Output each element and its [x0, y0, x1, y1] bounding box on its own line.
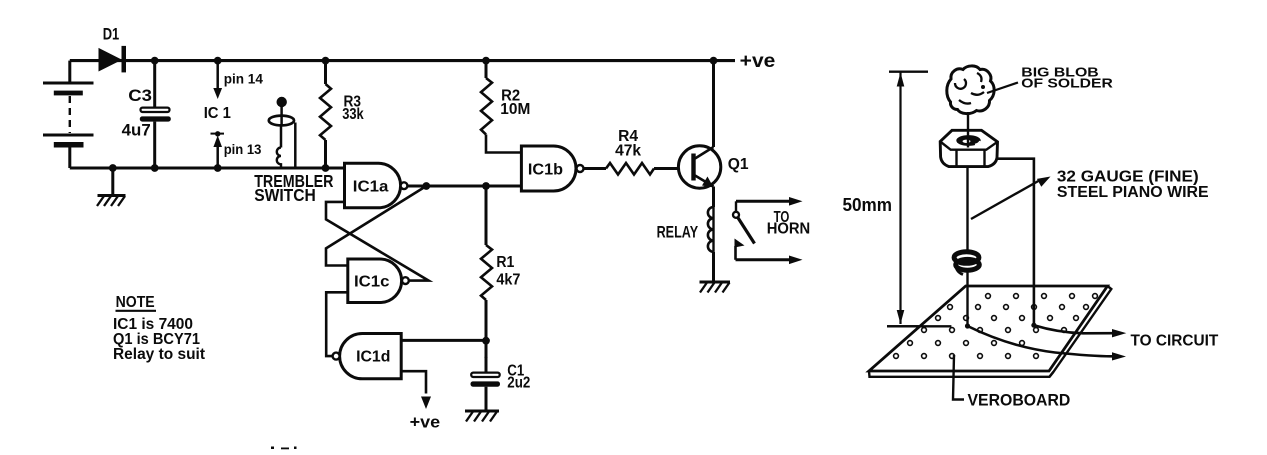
svg-text:2u2: 2u2	[507, 374, 530, 391]
svg-text:Relay to suit: Relay to suit	[113, 346, 205, 363]
transistor Q1	[678, 146, 720, 188]
op-amp gate IC1c	[348, 259, 409, 303]
lead to circuit upper + arrow	[1034, 325, 1126, 337]
veroboard	[869, 286, 1111, 377]
svg-text:IC1a: IC1a	[353, 179, 389, 196]
pin 13 arrow	[211, 131, 225, 172]
dimension line 50mm	[887, 72, 951, 327]
svg-text:HORN: HORN	[767, 221, 811, 238]
svg-text:+ve: +ve	[410, 414, 441, 432]
wire Q1 emitter	[712, 187, 715, 208]
svg-text:pin 14: pin 14	[224, 71, 263, 87]
wire cross-coupling B (IC1c out to IC1a in)	[326, 202, 429, 281]
leader 32 gauge arrow	[971, 177, 1051, 220]
op-amp gate IC1a	[345, 163, 408, 208]
wire bottom rail	[70, 167, 345, 170]
battery B1	[43, 61, 94, 168]
resistor R2	[481, 61, 521, 153]
svg-text:Q1: Q1	[728, 156, 749, 173]
op-amp gate IC1b	[521, 146, 583, 191]
node R1 top tap	[482, 182, 490, 190]
svg-text:4k7: 4k7	[496, 272, 520, 289]
ground (relay)	[700, 282, 731, 293]
note block	[113, 294, 205, 363]
wire IC1d top input to timing node	[401, 339, 486, 342]
svg-text:VEROBOARD: VEROBOARD	[968, 390, 1071, 409]
svg-text:C3: C3	[128, 86, 152, 105]
dimension tick over board	[887, 325, 951, 327]
svg-text:10M: 10M	[500, 101, 530, 118]
svg-text:R1: R1	[496, 254, 514, 271]
resistor R4	[584, 163, 679, 175]
node R3 bottom	[322, 164, 330, 172]
svg-text:NOTE: NOTE	[116, 294, 155, 311]
node C3 bottom	[151, 164, 159, 172]
op-amp gate IC1d (mirrored)	[333, 334, 402, 379]
svg-text:32 GAUGE (FINE): 32 GAUGE (FINE)	[1057, 168, 1199, 185]
wire IC1c bottom input to IC1d output	[326, 292, 348, 356]
resistor R1	[481, 186, 492, 341]
wire base joints	[965, 323, 970, 328]
svg-text:SWITCH: SWITCH	[254, 185, 316, 205]
wire to horn top + arrow	[736, 197, 803, 206]
ground (C1)	[465, 411, 499, 422]
resistor R3	[320, 61, 331, 168]
node ground junction	[109, 164, 117, 172]
wire top supply rail	[70, 59, 735, 62]
wire to horn bottom + arrow	[736, 256, 803, 265]
wire blob to nut	[967, 112, 969, 131]
solder blob	[947, 66, 994, 114]
wire bent lead over board	[1033, 286, 1036, 325]
svg-text:pin 13: pin 13	[224, 141, 262, 157]
wire IC1d bottom input to +ve	[401, 371, 426, 393]
leader veroboard	[953, 355, 964, 400]
svg-text:TO CIRCUIT: TO CIRCUIT	[1131, 332, 1219, 349]
svg-text:50mm: 50mm	[843, 195, 893, 215]
arrow +ve down	[421, 397, 431, 410]
svg-text:IC1c: IC1c	[354, 274, 390, 291]
svg-text:IC1d: IC1d	[356, 349, 390, 366]
piano wire bent lead	[998, 159, 1034, 326]
svg-text:OF SOLDER: OF SOLDER	[1021, 75, 1113, 90]
trembler switch	[269, 97, 296, 168]
relay contact switch	[733, 201, 755, 259]
piano wire center	[966, 167, 968, 252]
svg-text:47k: 47k	[615, 143, 641, 160]
spring coil on wire	[954, 252, 979, 275]
svg-text:+ve: +ve	[740, 51, 776, 72]
wire cross-coupling A (IC1a out to IC1c in)	[326, 186, 426, 266]
capacitor C1	[471, 341, 501, 411]
wire center over board	[966, 286, 968, 326]
svg-text:RELAY: RELAY	[657, 223, 699, 242]
pin 14 arrow	[213, 57, 222, 99]
svg-text:33k: 33k	[342, 106, 364, 123]
node R3 top	[322, 57, 330, 65]
node C3 top	[151, 57, 159, 65]
svg-text:4u7: 4u7	[122, 121, 151, 139]
hex nut	[940, 130, 997, 166]
wire below coil	[966, 271, 968, 326]
diode D1	[99, 46, 127, 73]
wire relay to ground	[712, 252, 715, 282]
node timing node C1/R1	[482, 337, 490, 345]
leader big blob	[987, 83, 1018, 94]
stray specks	[271, 447, 274, 450]
svg-text:IC1b: IC1b	[528, 162, 563, 179]
svg-text:STEEL PIANO WIRE: STEEL PIANO WIRE	[1057, 184, 1209, 201]
capacitor C3	[140, 61, 171, 168]
wire Q1 collector	[712, 61, 715, 147]
ground (battery)	[97, 168, 126, 206]
wire IC1a output to IC1b input	[407, 185, 521, 188]
node cross-couple tap	[422, 182, 430, 190]
node R2 top	[482, 57, 490, 65]
svg-text:D1: D1	[103, 24, 120, 43]
node collector rail	[710, 57, 718, 65]
lead to circuit lower + arrow	[968, 326, 1127, 361]
veroboard holes	[894, 294, 1098, 359]
relay coil	[712, 207, 714, 252]
note underline	[116, 310, 157, 312]
svg-text:IC 1: IC 1	[204, 105, 231, 122]
